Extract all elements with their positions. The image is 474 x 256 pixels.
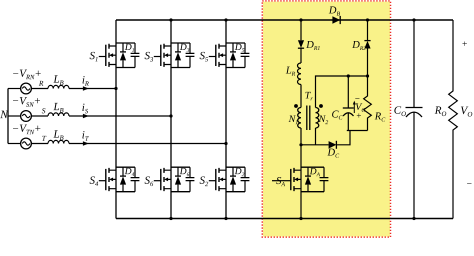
svg-text:S: S <box>42 106 46 115</box>
svg-text:+: + <box>356 111 362 121</box>
svg-text:+: + <box>461 40 467 50</box>
svg-text:R: R <box>38 79 44 88</box>
svg-text:−: − <box>354 93 360 103</box>
svg-text:−: − <box>466 180 472 190</box>
svg-text:N: N <box>0 109 9 121</box>
